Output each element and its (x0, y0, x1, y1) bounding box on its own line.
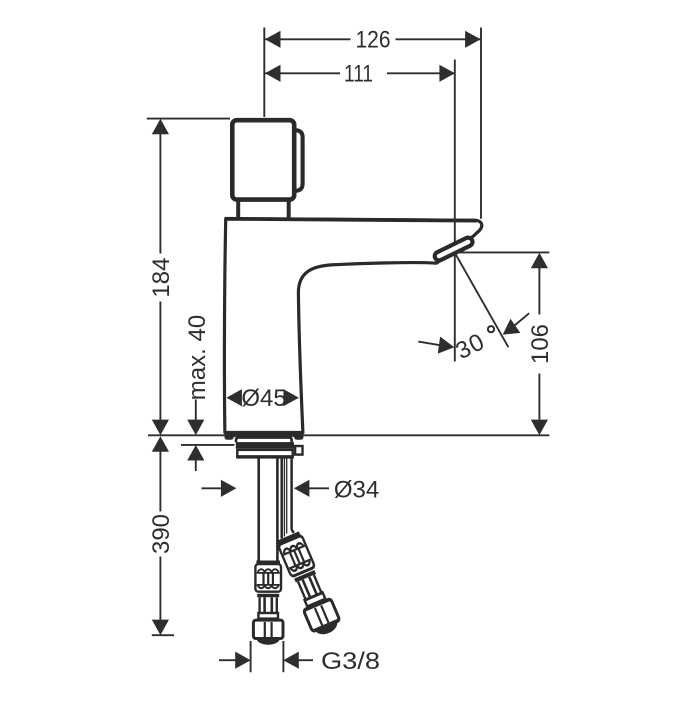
svg-text:Ø45: Ø45 (241, 385, 286, 412)
svg-text:390: 390 (148, 514, 175, 554)
svg-text:max. 40: max. 40 (184, 315, 211, 400)
svg-text:126: 126 (356, 27, 391, 54)
svg-text:Ø34: Ø34 (334, 477, 379, 504)
svg-text:106: 106 (527, 324, 554, 364)
svg-text:111: 111 (344, 61, 373, 88)
svg-text:184: 184 (148, 258, 175, 298)
svg-text:G3/8: G3/8 (321, 648, 380, 675)
